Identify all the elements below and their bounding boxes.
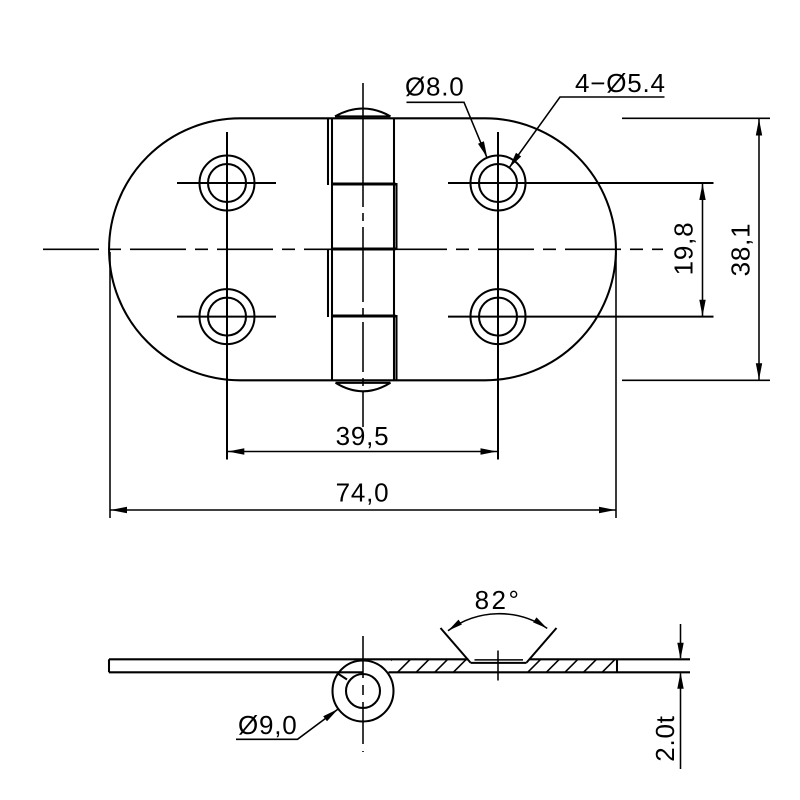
barrel circle outer o9.0 — [333, 661, 394, 722]
countersink slant left — [441, 628, 471, 663]
angle dimension arc 82 deg — [448, 614, 547, 631]
side view pin centerline — [362, 636, 364, 752]
right leaf end — [616, 659, 618, 672]
horizontal part centerline — [43, 248, 663, 250]
barrel knuckle dividers (thick) — [331, 184, 396, 316]
countersink hole centerline — [497, 651, 499, 681]
side view plate bottom surface — [109, 671, 690, 673]
extension lines for 38.1 — [622, 117, 770, 119]
pin bottom dome — [336, 383, 391, 392]
thickness dimension 2.0t — [680, 624, 682, 658]
hole crosshair horizontal top-left — [177, 182, 276, 184]
hole centerline vertical left column — [226, 132, 228, 460]
hole crosshair horizontal top-right extended for 19.8 dim — [448, 182, 714, 184]
svg-text:74,0: 74,0 — [336, 478, 390, 508]
countersink slant right — [527, 628, 557, 663]
svg-text:19,8: 19,8 — [669, 222, 699, 276]
leaf curl junction — [337, 673, 347, 680]
hatch section lines (right leaf) — [379, 659, 615, 672]
hinge pin centerline (vertical) — [362, 83, 364, 427]
svg-text:38,1: 38,1 — [726, 223, 756, 277]
svg-text:4−Ø5.4: 4−Ø5.4 — [575, 68, 666, 98]
hole crosshair horizontal bottom-left — [177, 316, 276, 318]
svg-text:39,5: 39,5 — [336, 421, 390, 451]
svg-text:82°: 82° — [475, 585, 522, 615]
pin circle inner — [346, 674, 380, 708]
side view plate top surface — [109, 658, 690, 660]
counterbored holes 4x (o8.0 / o5.4) — [200, 156, 255, 211]
hole centerline vertical right column — [497, 132, 499, 460]
dimension 74.0 — [111, 509, 616, 511]
svg-text:2.0t: 2.0t — [650, 715, 680, 762]
barrel knuckle edges — [328, 118, 397, 380]
dimension 38.1 — [758, 119, 760, 380]
svg-text:Ø8.0: Ø8.0 — [405, 72, 465, 102]
dimension 19.8 — [702, 184, 704, 317]
left leaf end cap — [108, 659, 110, 672]
svg-text:Ø9,0: Ø9,0 — [238, 710, 298, 740]
dimension 39.5 — [228, 451, 497, 453]
hinge outline (stadium shape, 74.0 x 38.1) — [109, 118, 616, 380]
countersink bottom edges — [475, 659, 524, 661]
hole crosshair horizontal bottom-right extended for 19.8 dim — [448, 316, 714, 318]
extension lines for 74.0 — [109, 252, 111, 518]
pin top dome — [335, 109, 391, 117]
